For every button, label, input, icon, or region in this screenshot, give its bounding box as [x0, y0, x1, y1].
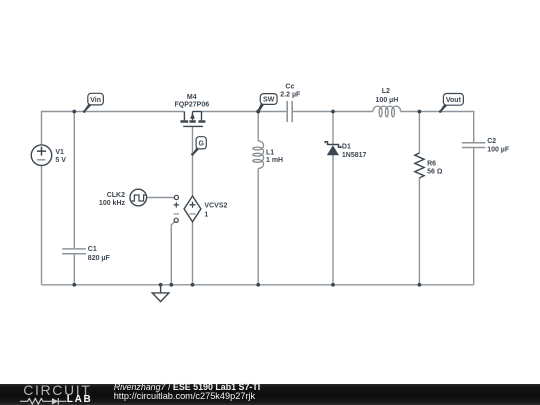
node flag G	[191, 137, 206, 156]
wire V1 bottom lead	[41, 166, 43, 285]
inductor L1	[253, 141, 283, 169]
clock source CLK2	[99, 189, 147, 207]
node dot VCVS2 bottom	[191, 283, 195, 287]
wire L1 branch upper	[257, 112, 259, 142]
svg-text:G: G	[198, 141, 204, 148]
wire Cc right plate to L2	[293, 111, 373, 113]
svg-text:FQP27P06: FQP27P06	[174, 102, 209, 109]
voltage source V1	[31, 145, 66, 166]
svg-text:L1: L1	[266, 150, 274, 157]
credit line 1	[114, 383, 261, 392]
node dot ground junction	[159, 283, 163, 287]
wire C1 branch lower	[73, 254, 75, 284]
credit line 2	[114, 392, 255, 401]
svg-text:Vout: Vout	[446, 97, 462, 104]
wire VCVS control minus terminal down to rail	[171, 222, 174, 285]
svg-text:VCVS2: VCVS2	[204, 203, 227, 210]
svg-text:M4: M4	[187, 94, 197, 101]
logo CIRCUIT text	[23, 383, 91, 397]
resistor R6	[415, 153, 443, 178]
wire D1 branch upper	[332, 112, 334, 145]
svg-text:Cc: Cc	[285, 84, 294, 91]
wire R6 branch upper	[418, 112, 420, 154]
node dot Vin/C1 junction	[72, 110, 76, 114]
svg-text:L2: L2	[382, 88, 390, 95]
node dot C1 bottom	[72, 283, 76, 287]
svg-text:820 µF: 820 µF	[88, 255, 111, 262]
wire M4 drain to Cc left plate	[202, 111, 287, 113]
node dot control wire bottom	[169, 283, 173, 287]
svg-text:SW: SW	[263, 97, 275, 104]
capacitor C2	[462, 138, 510, 153]
diode D1 1N5817 (schottky)	[325, 142, 366, 159]
svg-text:CLK2: CLK2	[107, 192, 125, 199]
wire bottom rail	[42, 284, 474, 286]
svg-text:Vin: Vin	[90, 97, 101, 104]
wire VCVS2 bottom lead	[192, 222, 194, 285]
svg-text:1: 1	[204, 211, 208, 218]
wire CLK2 to terminal	[147, 197, 175, 199]
logo LAB text	[67, 395, 93, 405]
wire L2 to right corner down to C2	[401, 112, 474, 143]
inductor L2	[373, 88, 401, 117]
footer bar	[0, 384, 540, 405]
VCVS control plus terminal	[174, 195, 179, 207]
node dot Vout/R6 junction	[418, 110, 422, 114]
ground	[152, 285, 169, 302]
svg-text:2.2 µF: 2.2 µF	[280, 92, 301, 99]
node dot R6 bottom	[418, 283, 422, 287]
node dot L1 bottom	[256, 283, 260, 287]
svg-text:5 V: 5 V	[55, 157, 66, 164]
node dot SW junction	[256, 110, 260, 114]
svg-text:C2: C2	[487, 138, 496, 145]
svg-text:1N5817: 1N5817	[342, 152, 367, 159]
svg-text:56 Ω: 56 Ω	[427, 169, 443, 176]
transistor M4 FQP27P06 (P-MOSFET)	[174, 94, 209, 126]
wire Vin junction to M4 source	[74, 111, 184, 113]
wire D1 branch lower	[332, 155, 334, 285]
node dot D1 top junction	[331, 110, 335, 114]
capacitor Cc	[280, 84, 301, 122]
wire C1 branch upper	[73, 112, 75, 249]
svg-text:100 µH: 100 µH	[376, 97, 399, 104]
node flag SW	[256, 94, 277, 114]
wire L1 branch lower	[257, 169, 259, 285]
dependent source VCVS2	[184, 196, 227, 222]
wire M4 gate to VCVS2	[192, 126, 194, 196]
node flag Vin	[83, 93, 104, 113]
node dot D1 bottom	[331, 283, 335, 287]
svg-text:R6: R6	[427, 160, 436, 167]
svg-text:C1: C1	[88, 246, 97, 253]
wire R6 branch lower	[418, 178, 420, 285]
svg-text:V1: V1	[55, 149, 64, 156]
logo squiggle resistor-diode	[20, 396, 68, 405]
svg-text:100 kHz: 100 kHz	[99, 200, 126, 207]
wire C2 to bottom right corner	[473, 148, 475, 285]
node flag Vout	[439, 94, 464, 113]
svg-text:D1: D1	[342, 143, 351, 150]
wire V1 top lead to Vin junction	[42, 112, 75, 145]
capacitor C1	[62, 246, 110, 262]
svg-text:1 mH: 1 mH	[266, 157, 283, 164]
svg-text:100 µF: 100 µF	[487, 146, 510, 153]
VCVS control minus terminal	[174, 214, 179, 223]
